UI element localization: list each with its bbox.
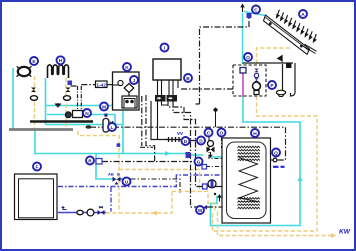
wire orange radiator drop <box>65 78 67 131</box>
check valve on cyan y=105.5 <box>56 103 61 107</box>
wire cyan fan-coil drop <box>12 68 14 129</box>
wall bar black <box>30 120 93 122</box>
wire cyan collector riser <box>243 12 266 65</box>
label box 1-42 <box>96 81 108 88</box>
station right stack <box>253 69 261 95</box>
wire orange KW cold water <box>218 212 334 236</box>
svg-text:L: L <box>111 125 114 131</box>
svg-text:R: R <box>88 158 92 164</box>
label E <box>30 57 38 65</box>
pump group 1 <box>155 95 166 102</box>
label W <box>196 206 204 214</box>
label R <box>86 157 94 165</box>
label I <box>161 44 169 52</box>
svg-text:KW: KW <box>339 229 351 236</box>
vent sensor lollipop <box>213 107 218 127</box>
wire K-unit right drop <box>141 96 143 146</box>
wire cyan arrow on main <box>165 151 171 156</box>
svg-text:B: B <box>186 76 190 82</box>
valve on radiator drop (TRV) <box>66 88 71 93</box>
wire dashed run y=161.5 <box>102 161 196 163</box>
svg-text:G: G <box>197 159 201 165</box>
label P <box>268 81 276 89</box>
label Q right of tank <box>272 149 280 157</box>
wire orange middle horizontal y=169.5 <box>119 170 215 213</box>
sensor box near radiator <box>68 81 73 86</box>
label G <box>195 158 203 166</box>
wire navy circulation tankF to tank <box>58 175 222 187</box>
wire thermometer stem <box>271 159 274 161</box>
label M <box>100 103 108 111</box>
solar station dashed box <box>233 65 266 96</box>
electric heater dashes <box>273 166 285 168</box>
small drain ellipse on bar <box>86 125 92 129</box>
svg-text:AB: AB <box>108 172 114 177</box>
svg-text:O: O <box>220 130 224 136</box>
flange set <box>165 137 181 142</box>
tank bottom coil <box>238 198 260 209</box>
label F <box>33 163 41 171</box>
sensor box below G <box>202 165 207 170</box>
wire tank mid sensor dash <box>206 166 222 168</box>
sensor square on orange drop <box>117 143 121 147</box>
svg-text:C: C <box>207 130 211 136</box>
wire magenta station pipe <box>242 73 244 97</box>
wire orange arrow left on y=213 <box>152 211 158 216</box>
expansion vessel M <box>103 114 109 133</box>
DHW pump <box>208 180 216 188</box>
wire tundish/safety line <box>243 63 296 96</box>
label H tank <box>251 129 259 137</box>
svg-text:N: N <box>85 111 89 117</box>
svg-text:H: H <box>253 131 257 137</box>
pump group 2 <box>167 95 178 102</box>
wire cyan return y=114.5 staircase <box>47 115 115 125</box>
wire orange left web <box>78 131 119 213</box>
label N <box>83 109 91 117</box>
svg-text:C: C <box>254 7 258 13</box>
svg-text:U: U <box>125 179 129 185</box>
wire boiler pipe to flanges <box>151 101 206 141</box>
safety valve flag <box>278 56 292 68</box>
boiler bottom stubs <box>158 80 179 95</box>
wire tank top sensor dashes <box>209 137 222 159</box>
storage tank outer <box>222 138 271 223</box>
K-unit frame <box>113 72 140 110</box>
K-unit diamond valve <box>124 84 134 97</box>
tank big zigzag <box>239 158 258 202</box>
tankF 3-way cluster <box>98 207 105 216</box>
fan coil E <box>17 66 32 77</box>
small up arrow near tank <box>218 195 221 202</box>
station left valve <box>240 68 246 74</box>
svg-text:D: D <box>184 139 188 145</box>
label O station <box>244 53 252 61</box>
radiator H <box>48 65 69 78</box>
wire collector sensor line <box>196 18 250 104</box>
wire staircase B <box>168 100 196 188</box>
svg-text:A: A <box>301 12 305 18</box>
svg-text:K: K <box>125 65 129 71</box>
svg-text:1-42: 1-42 <box>96 82 106 88</box>
wire staircase A to tank bottom <box>173 102 222 208</box>
label B <box>184 74 192 82</box>
valve on fan-coil drop <box>31 88 36 93</box>
wire boiler right stub <box>181 88 233 90</box>
wire long dash-dot y=126.5 <box>90 127 286 160</box>
label T2 <box>197 137 205 145</box>
tankF drain elbow <box>62 206 67 210</box>
DHW mixing valve <box>207 141 215 158</box>
K-unit burner box <box>122 96 137 108</box>
K-unit internal pump <box>113 80 124 85</box>
svg-text:M: M <box>102 104 106 110</box>
wire cyan long horizontal to tank <box>35 131 186 154</box>
air vent top <box>241 5 252 19</box>
svg-text:F: F <box>36 164 39 170</box>
wire cyan branch down to AB valve <box>96 154 113 180</box>
wire cyan radiator drop <box>46 78 123 125</box>
DHW flowmeter <box>203 184 208 189</box>
AB 3-way valve <box>108 172 121 185</box>
junction dot <box>214 193 216 195</box>
wire orange collector return <box>257 48 291 65</box>
label C vent <box>252 6 260 14</box>
svg-text:B: B <box>117 172 120 177</box>
wire short dash y=147 <box>140 146 153 148</box>
boiler I <box>153 59 181 80</box>
label H <box>57 56 65 64</box>
navy box end of cyan main <box>186 152 191 158</box>
svg-text:Q: Q <box>274 150 278 156</box>
svg-text:W: W <box>198 208 203 214</box>
wire boiler left pipe to DHW coil <box>146 95 155 162</box>
sensor box right of R <box>96 159 102 165</box>
wire navy bottom tankF line <box>58 212 106 214</box>
wire cyan flow arrow up on riser <box>298 176 303 182</box>
label D <box>218 129 226 137</box>
wall bar gray <box>9 128 73 131</box>
storage tank inner <box>227 142 267 219</box>
label U <box>123 178 131 186</box>
solar collector <box>264 15 317 54</box>
thermometer ring <box>273 158 277 162</box>
label J <box>130 76 138 84</box>
svg-text:O: O <box>246 55 250 61</box>
wire orange fan-coil drop <box>34 76 36 131</box>
label A <box>299 10 307 18</box>
wire cyan solar loop <box>211 97 301 226</box>
pump on cyan y=114.5 <box>65 111 82 118</box>
wire orange solar ring <box>213 96 318 231</box>
label K <box>123 63 131 71</box>
wire DHW pump line <box>197 186 223 188</box>
sun arrows <box>277 10 317 42</box>
wire cyan valve-to-tank top <box>190 155 222 157</box>
label L <box>108 123 116 131</box>
ellipse valve fan-coil <box>30 96 37 101</box>
tundish <box>276 90 285 96</box>
wire navy vertical branch <box>110 187 112 212</box>
wire orange bottom y=213 <box>106 191 172 213</box>
tank bottom valve bowtie <box>200 205 207 210</box>
svg-text:D: D <box>199 138 203 144</box>
wire AB valve outlet dash <box>120 179 180 193</box>
svg-text:J: J <box>133 78 136 84</box>
tankF line oval valve <box>77 210 83 214</box>
ellipse valve radiator <box>63 96 70 101</box>
wire cyan return y=105.5 with staircase <box>46 106 123 154</box>
label T1 <box>182 137 190 145</box>
wire radiator TRV return to K-unit <box>71 85 114 86</box>
tank top coil <box>238 146 260 160</box>
tank F <box>15 174 58 220</box>
wire orange KW arrow <box>331 233 337 238</box>
label C <box>205 129 213 137</box>
tankF line pump <box>87 209 94 216</box>
svg-text:vv: vv <box>177 131 184 137</box>
svg-text:H: H <box>59 58 63 64</box>
